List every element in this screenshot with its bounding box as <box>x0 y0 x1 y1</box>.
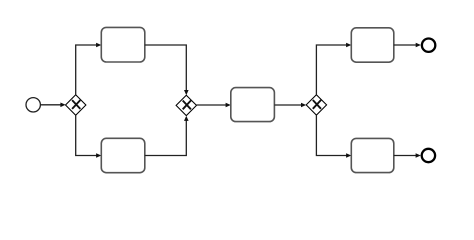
task T3 (middle) <box>231 88 275 122</box>
end event E1 <box>422 39 435 52</box>
start event <box>26 98 40 112</box>
gateway G1 (exclusive split) <box>66 95 86 115</box>
wire T2 to gateway G2 <box>145 116 189 156</box>
task T5 (bottom right) <box>351 138 394 172</box>
gateway G2 (exclusive merge) <box>176 95 196 115</box>
wire T1 to gateway G2 <box>145 45 189 95</box>
wire G1 bottom to task T2 <box>76 115 102 158</box>
end event E2 <box>422 149 435 162</box>
task T4 (top right) <box>351 28 394 62</box>
wire G3 bottom to task T5 <box>316 115 351 158</box>
wire T3 to gateway G3 <box>274 103 306 108</box>
gateway G3 (exclusive split) <box>306 95 326 115</box>
task T1 (top left) <box>101 27 145 62</box>
wire start to gateway G1 <box>41 103 66 108</box>
wire T4 to end event E1 <box>394 43 421 48</box>
wire G1 top to task T1 <box>76 43 102 95</box>
task T2 (bottom left) <box>101 138 145 172</box>
wire G3 top to task T4 <box>316 43 351 95</box>
wire T5 to end event E2 <box>394 153 421 158</box>
wire G2 to task T3 <box>197 103 231 108</box>
